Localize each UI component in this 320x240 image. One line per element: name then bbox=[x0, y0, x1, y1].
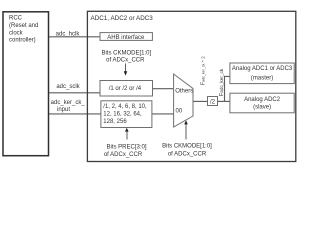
svg-text:Bits PREC[3:0]: Bits PREC[3:0] bbox=[106, 144, 146, 150]
svg-text:Bits CKMODE[1:0]: Bits CKMODE[1:0] bbox=[101, 50, 151, 56]
svg-text:/1 or /2 or /4: /1 or /2 or /4 bbox=[109, 86, 142, 92]
svg-text:of ADCx_CCR: of ADCx_CCR bbox=[104, 152, 143, 158]
svg-text:128, 256: 128, 256 bbox=[103, 119, 127, 125]
svg-text:RCC: RCC bbox=[9, 16, 23, 22]
svg-text:adc_sclk: adc_sclk bbox=[56, 84, 80, 90]
svg-text:input: input bbox=[57, 107, 70, 113]
svg-text:(Reset and: (Reset and bbox=[9, 23, 38, 29]
svg-text:Analog ADC1 or ADC3: Analog ADC1 or ADC3 bbox=[232, 66, 293, 72]
svg-text:(master): (master) bbox=[251, 76, 273, 82]
svg-text:of ADCx_CCR: of ADCx_CCR bbox=[106, 57, 145, 63]
svg-text:(slave): (slave) bbox=[253, 104, 271, 110]
svg-text:Fadc_ker_ck ÷ 2: Fadc_ker_ck ÷ 2 bbox=[201, 56, 207, 85]
svg-text:AHB interface: AHB interface bbox=[107, 35, 145, 41]
svg-text:12, 16, 32, 64,: 12, 16, 32, 64, bbox=[103, 111, 142, 117]
svg-text:adc_hclk: adc_hclk bbox=[56, 32, 81, 38]
svg-text:/1, 2, 4, 6, 8, 10,: /1, 2, 4, 6, 8, 10, bbox=[103, 104, 147, 110]
svg-text:controller): controller) bbox=[9, 38, 36, 44]
svg-text:Analog ADC2: Analog ADC2 bbox=[244, 97, 281, 103]
svg-text:/2: /2 bbox=[210, 99, 216, 105]
svg-text:ADC1, ADC2 or ADC3: ADC1, ADC2 or ADC3 bbox=[91, 15, 154, 22]
svg-text:of ADCx_CCR: of ADCx_CCR bbox=[168, 151, 207, 157]
svg-text:clock: clock bbox=[9, 30, 24, 36]
svg-text:Others: Others bbox=[175, 88, 193, 94]
svg-text:adc_ker_ck_: adc_ker_ck_ bbox=[51, 100, 86, 106]
svg-text:Bits CKMODE[1:0]: Bits CKMODE[1:0] bbox=[162, 143, 212, 149]
svg-text:00: 00 bbox=[176, 109, 183, 115]
